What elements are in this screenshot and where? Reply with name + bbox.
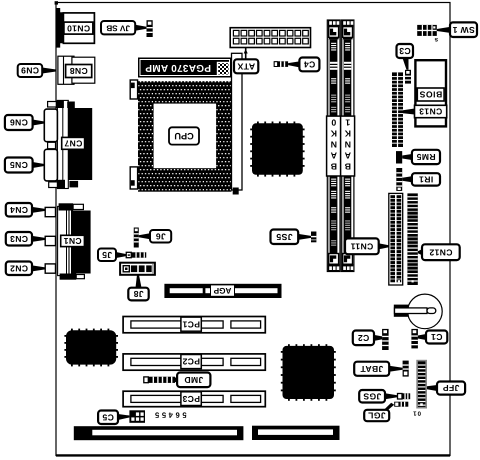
battery [394,294,442,329]
svg-text:N: N [330,140,337,150]
label CN13 [403,105,447,117]
label JFP [427,382,465,395]
svg-text:C2: C2 [358,333,370,343]
label JGS [359,390,397,403]
svg-text:PC3: PC3 [182,394,200,404]
svg-text:JV SB: JV SB [106,23,130,32]
svg-text:CN12: CN12 [429,247,452,257]
header CN12 [407,193,417,285]
socket PGA370 pin grid [138,81,232,192]
svg-text:CN4: CN4 [10,205,28,215]
socket lever tab bottom [130,167,137,189]
svg-text:JFP: JFP [443,383,460,393]
svg-text:IR1: IR1 [419,175,433,185]
label C3 [397,44,414,70]
svg-text:CN10: CN10 [67,23,90,33]
jumper J5 [126,252,146,257]
svg-text:CN8: CN8 [69,66,87,76]
svg-text:K: K [344,129,351,139]
label CPU [169,127,199,144]
svg-text:CN13: CN13 [419,107,442,117]
capacitor C3 [405,70,411,84]
svg-text:CN1: CN1 [63,236,81,246]
resistor RM5 [396,151,402,163]
label JS5 [271,230,312,245]
svg-text:CN11: CN11 [350,241,373,251]
svg-text:CN7: CN7 [64,139,82,149]
svg-text:ATX: ATX [237,62,255,72]
header IR1 [396,168,402,191]
port CN3 [45,236,55,245]
jumper JGL [394,402,408,407]
svg-text:J6: J6 [155,231,165,241]
connector CN10 [56,8,94,48]
svg-text:CN3: CN3 [10,234,28,244]
label JBAT [354,362,402,376]
svg-text:RM5: RM5 [416,152,435,162]
chip BIOS [415,60,446,126]
label BIOS [417,88,444,101]
connector CN8 [58,56,95,84]
svg-text:JMD: JMD [184,375,203,385]
svg-text:CN2: CN2 [10,263,28,273]
label CN12 [418,244,460,260]
svg-text:0: 0 [331,118,336,128]
svg-text:C5: C5 [102,412,114,422]
connector CN1 assembly [58,203,91,279]
socket PGA370 top bar [138,58,232,78]
label CN11 [345,238,389,254]
svg-text:CN6: CN6 [10,118,28,128]
header JFP [416,360,427,409]
label J6 [139,230,171,243]
capacitor C2 [382,329,389,350]
slot ISA right segment [252,426,340,440]
svg-text:PGA370 AMP: PGA370 AMP [145,62,211,73]
label C1 [418,331,447,344]
connector CN7 assembly [44,100,92,188]
svg-text:PC1: PC1 [182,319,200,329]
socket lever bar [232,53,243,194]
block C5 [129,410,145,423]
svg-text:s: s [434,36,438,43]
jumper JS5 [311,232,316,243]
svg-text:JGL: JGL [368,411,386,421]
svg-text:AGP: AGP [213,286,231,295]
text 56455 [152,411,186,420]
label JGL [364,403,394,421]
svg-text:B: B [330,162,337,172]
header CN11 [389,193,403,285]
label J5 [98,249,126,262]
chip southbridge [281,344,336,401]
label C5 [98,411,129,425]
jumper J6 [134,228,139,248]
jumper JBAT [403,361,409,377]
socket AMP logo [218,63,230,76]
jumper JGS [398,393,411,399]
svg-text:01: 01 [412,410,421,417]
DIMM slot BANK0 [327,20,341,272]
slot PC1 [123,317,265,333]
svg-text:C4: C4 [304,60,316,70]
svg-text:B: B [344,162,351,172]
svg-text:JBAT: JBAT [360,364,384,374]
label C2 [353,331,382,346]
block J8 [120,263,155,275]
svg-text:N: N [344,140,351,150]
header CN13 [392,72,403,147]
switch SW1 [417,25,437,36]
slot ISA left segment [74,426,244,440]
svg-text:A: A [344,151,351,161]
svg-text:56455: 56455 [152,411,186,420]
label CN5 [5,158,44,173]
port CN2 [45,264,55,273]
svg-text:CN9: CN9 [21,66,39,76]
svg-text:C1: C1 [431,332,443,342]
capacitor C1 [411,329,418,349]
slot AGP [164,284,281,298]
chip super IO [64,329,118,367]
label J8 [128,275,148,301]
label RM5 [402,150,440,164]
DIMM slot BANK1 [341,20,355,272]
svg-text:PC2: PC2 [182,357,200,367]
label CN9 [18,64,56,77]
svg-text:C3: C3 [399,46,411,56]
svg-text:BIOS: BIOS [419,90,442,100]
chip northbridge [250,122,304,177]
label SW1 [437,22,477,37]
label JMD [175,373,210,388]
port CN4 [45,207,55,216]
svg-text:A: A [330,151,337,161]
text 01 marker [412,410,421,417]
slot PC3 [123,391,265,407]
text s marker [434,36,438,43]
capacitor C4 [274,61,288,67]
socket lever tab top [130,80,137,99]
svg-text:JGS: JGS [363,391,381,401]
label C4 [288,58,319,72]
label JVSB [101,21,147,34]
connector ATX [230,28,310,48]
label CN4 [6,203,45,217]
svg-text:J5: J5 [102,250,112,260]
label CN3 [6,232,45,246]
svg-text:1: 1 [345,118,350,128]
svg-text:CPU: CPU [174,131,194,141]
label CN2 [6,262,45,276]
svg-text:SW 1: SW 1 [452,25,474,35]
slot PC2 [123,354,265,370]
svg-text:CN5: CN5 [10,160,28,170]
label CN6 [5,115,44,130]
svg-text:J8: J8 [133,289,143,299]
svg-text:JS5: JS5 [276,232,293,242]
jumper JMD [144,377,175,383]
label ATX [234,48,258,74]
svg-text:K: K [330,129,337,139]
label IR1 [402,173,440,185]
jumper JVSB [147,20,153,37]
